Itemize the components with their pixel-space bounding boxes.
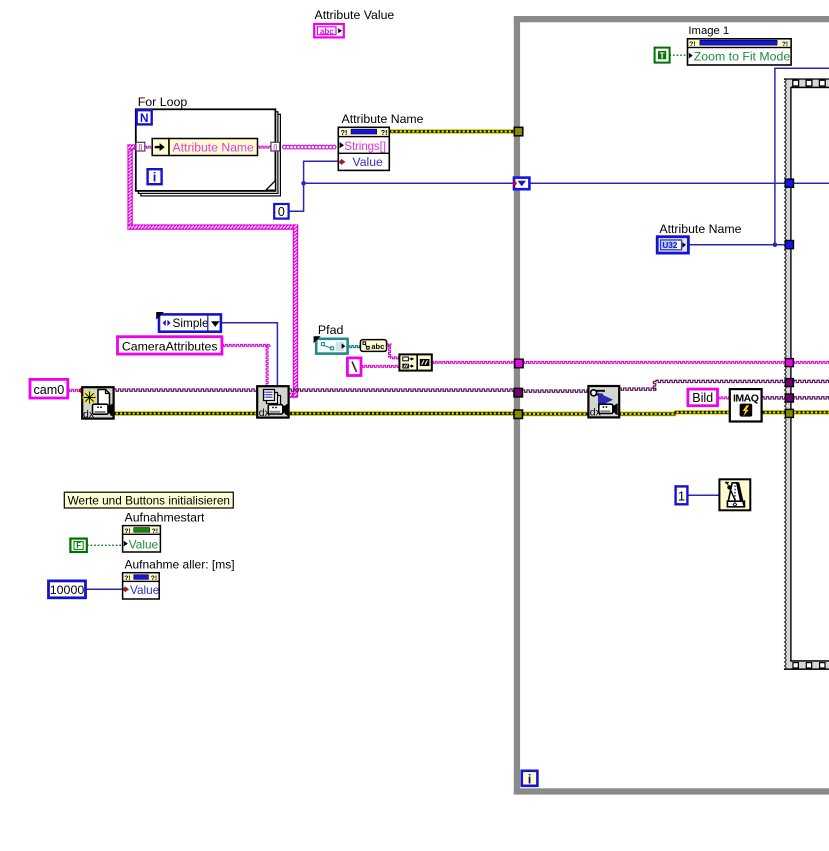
tunnel: for loop auto-index output bbox=[271, 142, 280, 152]
for loop count terminal N bbox=[137, 110, 152, 125]
numeric constant 1 bbox=[676, 486, 688, 504]
wire: 0 constant to Value input and shift register bbox=[289, 161, 339, 211]
wire: F to Aufnahmestart value dotted bbox=[87, 544, 123, 546]
wire: T to zoom mode dotted bbox=[669, 54, 687, 56]
svg-text:Aufnahmestart: Aufnahmestart bbox=[125, 511, 206, 525]
numeric constant 0 bbox=[274, 204, 288, 219]
function: IMAQdx Open Camera bbox=[82, 387, 113, 420]
svg-text:abc: abc bbox=[320, 27, 334, 36]
wire: pfad string inside loop bbox=[523, 361, 829, 363]
while loop iteration terminal i bbox=[522, 771, 538, 787]
svg-text:?!: ?! bbox=[341, 128, 348, 137]
string control: Attribute Value bbox=[314, 24, 344, 37]
svg-text:For Loop: For Loop bbox=[138, 95, 188, 109]
svg-text:Aufnahme aller: [ms]: Aufnahme aller: [ms] bbox=[125, 557, 235, 571]
svg-text:1: 1 bbox=[678, 488, 685, 503]
string constant: CameraAttributes bbox=[118, 337, 222, 354]
wire: shift register value inside loop bbox=[529, 182, 829, 184]
string constant: backslash bbox=[347, 358, 361, 376]
function: Path To String bbox=[360, 340, 386, 352]
svg-text:Attribute Value: Attribute Value bbox=[315, 8, 395, 22]
for loop iteration terminal i bbox=[148, 169, 162, 184]
svg-text:F: F bbox=[76, 541, 81, 550]
svg-text:Simple: Simple bbox=[173, 316, 209, 330]
svg-text:?!: ?! bbox=[381, 128, 388, 137]
wire: strings array braided enumerate to for loop bbox=[127, 144, 132, 229]
svg-text:i: i bbox=[153, 170, 157, 185]
svg-text:CameraAttributes: CameraAttributes bbox=[122, 340, 218, 354]
function: Concatenate Strings bbox=[399, 354, 431, 370]
svg-text:?!: ?! bbox=[124, 575, 130, 582]
svg-text:?!: ?! bbox=[689, 41, 695, 48]
function: IMAQ Create bbox=[730, 389, 762, 421]
svg-text:?!: ?! bbox=[782, 41, 788, 48]
wire: attribute id from U32 control bbox=[689, 244, 786, 246]
svg-text:Werte und Buttons initialisier: Werte und Buttons initialisieren bbox=[68, 493, 230, 507]
svg-text:N: N bbox=[140, 111, 149, 125]
string constant: Bild bbox=[688, 389, 718, 406]
property node: Attribute Name Strings[] Value bbox=[338, 127, 389, 170]
svg-text:T: T bbox=[659, 50, 665, 60]
wire: error open camera to while loop bbox=[114, 412, 514, 416]
for loop structure bbox=[136, 109, 281, 196]
boolean constant T bbox=[655, 48, 670, 63]
svg-text:Attribute Name: Attribute Name bbox=[173, 141, 255, 155]
svg-text:[]: [] bbox=[273, 143, 277, 152]
wire: image name Bild to IMAQ create bbox=[717, 397, 730, 399]
tunnel: image on event structure bbox=[785, 394, 793, 402]
svg-text:Attribute Name: Attribute Name bbox=[342, 112, 424, 126]
svg-text:Value: Value bbox=[130, 583, 160, 597]
wire: camera name cam0 to open camera bbox=[68, 389, 82, 391]
tunnel: attribute id on event structure bbox=[785, 241, 793, 249]
svg-text:Zoom to Fit Mode: Zoom to Fit Mode bbox=[694, 49, 791, 63]
string constant: cam0 bbox=[30, 379, 68, 398]
wire: backslash to concat bbox=[361, 365, 400, 367]
wire: 1 to wait ms multiple bbox=[687, 494, 719, 496]
event structure bbox=[784, 78, 829, 670]
boolean constant F bbox=[70, 539, 86, 552]
wire: string array bubbles to Strings[] bbox=[283, 145, 287, 149]
tunnel: pfad string on while loop border bbox=[515, 359, 524, 368]
numeric constant 10000 bbox=[49, 581, 86, 598]
numeric control: Attribute Name U32 bbox=[657, 237, 688, 253]
wire: string element to output tunnel bbox=[257, 146, 271, 148]
property node: Image 1 Zoom to Fit Mode bbox=[688, 39, 792, 65]
tunnel: error on event structure bbox=[785, 409, 793, 417]
wire: image out of IMAQ create bbox=[762, 397, 829, 399]
svg-text:i: i bbox=[528, 771, 532, 786]
svg-text:?!: ?! bbox=[152, 528, 158, 535]
wire: path string to concat bbox=[386, 344, 392, 346]
svg-text:10000: 10000 bbox=[50, 583, 85, 597]
wire: path control to Path To String bbox=[348, 346, 361, 348]
function: IMAQdx Start Acquisition bbox=[588, 386, 619, 418]
svg-text:?!: ?! bbox=[151, 575, 157, 582]
svg-text:Pfad: Pfad bbox=[318, 323, 344, 337]
svg-text:U32: U32 bbox=[662, 241, 677, 250]
tunnel: shift register wire on event structure bbox=[785, 179, 793, 187]
tunnel: error top on while loop border bbox=[514, 127, 523, 136]
wire: session open to enumerate bbox=[114, 389, 257, 391]
path control: Pfad bbox=[314, 336, 348, 353]
shift register bbox=[513, 178, 530, 190]
property node: Aufnahme aller Value bbox=[123, 573, 160, 599]
property node: Aufnahmestart Value bbox=[123, 526, 161, 552]
function: Wait Until Next ms Multiple bbox=[719, 479, 750, 510]
wire: error inside loop bbox=[523, 412, 589, 416]
enum constant: Simple bbox=[156, 312, 221, 332]
wire: 10000 to Aufnahme aller value bbox=[85, 588, 122, 590]
svg-text:?!: ?! bbox=[124, 528, 130, 535]
tunnel: session on event structure bbox=[785, 379, 793, 387]
tunnel: session on while loop border bbox=[514, 388, 523, 397]
svg-text:Value: Value bbox=[353, 155, 383, 169]
svg-text:Bild: Bild bbox=[692, 391, 713, 405]
wire: CameraAttributes to enumerate node bbox=[222, 344, 271, 346]
svg-text:[]: [] bbox=[138, 143, 142, 152]
while loop bbox=[514, 16, 829, 795]
wire: concatenated path to while loop tunnel bbox=[431, 361, 514, 363]
svg-text:Image 1: Image 1 bbox=[688, 25, 729, 37]
label: Werte und Buttons initialisieren bbox=[64, 492, 233, 508]
svg-text:IMAQ: IMAQ bbox=[733, 392, 759, 404]
svg-text:0: 0 bbox=[278, 205, 285, 219]
tunnel: for loop auto-index input bbox=[136, 142, 145, 152]
svg-text:cam0: cam0 bbox=[34, 383, 65, 397]
wire: session enumerate to while loop bbox=[289, 389, 514, 391]
string indicator: Attribute Name element in for loop bbox=[152, 139, 257, 156]
svg-text:Strings[]: Strings[] bbox=[344, 139, 385, 153]
function: IMAQdx Enumerate Attributes bbox=[257, 386, 288, 419]
svg-text:Attribute Name: Attribute Name bbox=[659, 222, 741, 236]
tunnel: pfad string on event structure bbox=[785, 359, 793, 367]
svg-text:abc: abc bbox=[371, 342, 384, 351]
wire: error from property node to while loop tunnel bbox=[389, 130, 514, 134]
wire: Simple enum to enumerate node bbox=[221, 323, 277, 387]
svg-text:Value: Value bbox=[129, 537, 159, 551]
wire: session inside loop bbox=[522, 390, 588, 392]
wire: string into element terminal bbox=[145, 146, 153, 148]
tunnel: error bottom on while loop border bbox=[514, 410, 523, 419]
